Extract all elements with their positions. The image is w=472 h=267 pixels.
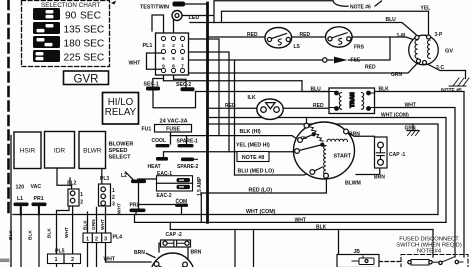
wire left dashed boundary xyxy=(7,0,10,212)
box HSIR xyxy=(14,132,41,169)
wire PL1 pin4 to vertical x229 down to YEL MED HI xyxy=(184,52,229,152)
svg-text:BLWR: BLWR xyxy=(83,147,102,154)
PL3 pin numbers xyxy=(112,188,115,208)
relay GVR xyxy=(64,71,109,85)
dip switch icon 3 xyxy=(33,36,60,48)
svg-text:HSIR: HSIR xyxy=(20,147,36,154)
motor IDM induced draft xyxy=(151,253,195,267)
svg-text:1.5 AMP: 1.5 AMP xyxy=(197,176,203,196)
svg-text:L2: L2 xyxy=(121,173,127,179)
terminal SPARE-1 xyxy=(178,144,194,147)
fuse block EAC xyxy=(157,176,193,191)
wire BLWR to PL3 xyxy=(101,169,103,185)
svg-text:WHT: WHT xyxy=(129,61,142,67)
wire WHT COM upper line right edge down to WHT bottom line xyxy=(208,118,447,223)
svg-text:FU1: FU1 xyxy=(142,127,152,133)
wire PL1 pin5 diagonal to FSE line xyxy=(176,54,323,60)
wire RED LO speed line xyxy=(201,179,326,194)
wire BLU top line xyxy=(190,23,416,35)
scan artifact bottom left xyxy=(0,259,10,263)
wire PR1 down xyxy=(38,206,40,267)
wire RED line ILK to transformer xyxy=(283,107,329,109)
wire PL1 pin2 up to YEL line across top to GV xyxy=(174,1,429,36)
gas valve GV xyxy=(409,35,439,65)
svg-text:BRN: BRN xyxy=(134,250,145,256)
svg-text:3: 3 xyxy=(104,237,107,243)
fuse FU1 box xyxy=(155,125,192,133)
wire blower motor to CAP-1 top BRN xyxy=(348,133,375,137)
wire CAP-1 bottom BRN return xyxy=(356,168,380,175)
svg-text:135 SEC: 135 SEC xyxy=(64,24,105,35)
svg-text:24 VAC-3A: 24 VAC-3A xyxy=(160,119,188,125)
terminal COOL xyxy=(156,144,170,147)
fusible link FSE xyxy=(323,57,348,64)
terminal COM xyxy=(175,204,188,207)
svg-text:2: 2 xyxy=(71,257,74,263)
connector PL2 xyxy=(68,189,79,206)
box IDR xyxy=(45,132,75,169)
terminal SEC-2 xyxy=(181,87,195,91)
svg-text:BLOWER: BLOWER xyxy=(109,141,134,147)
wire left cabinet box left edge xyxy=(10,136,12,267)
svg-text:L1: L1 xyxy=(17,196,23,202)
wire PL4 cell2 down xyxy=(96,243,98,267)
svg-text:NOTE #5: NOTE #5 xyxy=(441,88,462,94)
LED indicator xyxy=(172,11,182,21)
svg-text:WHT: WHT xyxy=(405,103,416,109)
svg-text:BLU: BLU xyxy=(311,86,322,92)
svg-text:JB: JB xyxy=(354,249,361,255)
switch FRS xyxy=(326,27,353,47)
dip switch icon 2 xyxy=(33,22,60,34)
terminal HEAT xyxy=(156,157,168,161)
svg-text:CAP -2: CAP -2 xyxy=(166,232,183,238)
svg-text:NOTE #4: NOTE #4 xyxy=(417,249,442,255)
svg-text:1: 1 xyxy=(86,237,89,243)
wire WHT from transformer right bottom down right edge xyxy=(375,108,456,258)
connector PL5 xyxy=(48,254,81,264)
svg-text:3: 3 xyxy=(112,202,115,208)
wire CAP-2 right down to IDM xyxy=(187,247,189,259)
leader line NOTE #6 left xyxy=(333,1,348,7)
relay HI/LO xyxy=(103,93,139,125)
svg-text:BLK: BLK xyxy=(82,220,88,230)
svg-text:RED: RED xyxy=(247,32,258,38)
svg-text:1: 1 xyxy=(54,257,57,263)
svg-text:PL4: PL4 xyxy=(113,235,123,241)
svg-text:BLK: BLK xyxy=(8,230,14,240)
wire GRN ground stub xyxy=(412,124,414,131)
wire PL2 bottom2 to PL5 cell2 xyxy=(72,206,74,267)
wire L2 to PR2 xyxy=(138,183,140,209)
wire JB to disconnect dashed xyxy=(379,261,403,263)
svg-text:2: 2 xyxy=(95,237,98,243)
svg-text:WHT (COM): WHT (COM) xyxy=(381,113,409,119)
PL5 cell numbers xyxy=(54,257,74,263)
wire RED LO left corner down xyxy=(200,193,202,222)
svg-text:TRAN: TRAN xyxy=(350,92,356,107)
wire BLK bottom corner down xyxy=(253,230,255,267)
wire RED line through LS and FRS to GV 1-M xyxy=(208,37,414,40)
wire RED line through ILK left xyxy=(208,107,258,109)
wire WHT COM bottom line xyxy=(13,214,438,216)
svg-text:1: 1 xyxy=(181,43,184,49)
selection chart dashed box xyxy=(22,1,110,67)
svg-text:ILK: ILK xyxy=(248,95,256,101)
svg-text:RED: RED xyxy=(365,65,376,71)
wire COM terminal down to WHT COM line xyxy=(181,207,183,215)
svg-text:2-C: 2-C xyxy=(436,65,444,71)
svg-text:NOTE #6: NOTE #6 xyxy=(350,4,371,10)
svg-text:GV: GV xyxy=(445,49,453,55)
svg-text:180 SEC: 180 SEC xyxy=(64,38,105,49)
wire PL4 cell1 down xyxy=(87,243,89,267)
svg-text:SPARE-1: SPARE-1 xyxy=(177,138,199,144)
wire GV 2-C to chassis xyxy=(425,63,466,79)
svg-text:YEL: YEL xyxy=(421,6,431,12)
wire SEC-1 elbow xyxy=(153,79,164,87)
svg-text:2: 2 xyxy=(112,195,115,201)
wire CAP-2 left down to IDM xyxy=(159,243,161,252)
connector PL3 xyxy=(99,184,111,206)
svg-text:GRN: GRN xyxy=(405,126,417,132)
wire PL4 cell1 up BLK xyxy=(87,212,89,233)
wire PL2 bottom to PL5 cell1 xyxy=(57,206,70,267)
svg-text:PR1: PR1 xyxy=(34,196,44,202)
svg-text:BLK: BLK xyxy=(47,228,53,238)
svg-text:PL2: PL2 xyxy=(67,181,76,187)
junction box JB xyxy=(337,255,379,267)
PL1 pin numbers 9 8 7 xyxy=(162,64,184,70)
svg-text:FUSE: FUSE xyxy=(166,127,180,133)
wire test/twin jumper to bus xyxy=(185,3,208,5)
jumper TEST/TWIN xyxy=(173,2,186,7)
switch lever L2 xyxy=(126,172,134,180)
wire BLK HI speed line xyxy=(170,136,297,140)
ground symbol GRN xyxy=(407,131,419,136)
svg-text:IDR: IDR xyxy=(54,147,66,154)
svg-text:PL5: PL5 xyxy=(55,249,65,255)
svg-text:3: 3 xyxy=(162,43,165,49)
svg-text:1: 1 xyxy=(80,192,83,198)
svg-text:CAP -1: CAP -1 xyxy=(389,152,406,158)
wire JB feed from BLK line xyxy=(338,230,340,255)
wire IDR to PL2 xyxy=(57,168,72,189)
transformer TRAN xyxy=(329,88,375,114)
svg-text:LS: LS xyxy=(294,44,301,50)
svg-text:BLU: BLU xyxy=(386,17,397,23)
wire PL4 cell3 up WHT xyxy=(105,208,107,234)
svg-text:BLU (MED LO): BLU (MED LO) xyxy=(238,169,275,175)
svg-text:BLWM: BLWM xyxy=(345,181,361,187)
svg-text:90 SEC: 90 SEC xyxy=(65,10,101,21)
connector PL1 xyxy=(156,33,189,75)
PL1 pin numbers 6 5 4 xyxy=(162,56,184,62)
leader line NOTE #6 right xyxy=(375,1,382,6)
wire BRN stub to IDM xyxy=(147,254,156,258)
wire blower motor top stub xyxy=(306,118,308,124)
svg-text:SEC-1: SEC-1 xyxy=(144,81,159,87)
svg-text:BLK: BLK xyxy=(379,86,390,92)
svg-text:BLK: BLK xyxy=(28,230,34,240)
wire SEC-2 right segment to transformer top xyxy=(196,91,330,93)
terminal SEC-1 xyxy=(146,87,160,91)
svg-text:RED (LO): RED (LO) xyxy=(249,188,273,194)
wire PL2 pin1 top xyxy=(69,178,71,186)
dip switch icon 1 xyxy=(33,8,60,20)
wire L1 down xyxy=(20,206,22,267)
wire FSE line right segment and loop vertical xyxy=(349,37,391,60)
svg-text:WHT: WHT xyxy=(117,203,123,214)
svg-text:8: 8 xyxy=(172,64,175,70)
svg-text:6: 6 xyxy=(162,56,165,62)
wire BLK from transformer right top down right edge to disconnect xyxy=(375,92,465,258)
svg-text:SEC-2: SEC-2 xyxy=(176,82,191,88)
connector PL4 xyxy=(83,233,111,243)
wire YEL MED HI speed line xyxy=(164,152,295,157)
svg-text:TEST/TWIN: TEST/TWIN xyxy=(140,5,169,11)
svg-text:2: 2 xyxy=(80,200,83,206)
wire EAC-1 left stub xyxy=(138,178,157,180)
svg-text:OL: OL xyxy=(301,135,308,141)
svg-text:NOTE #8: NOTE #8 xyxy=(242,155,264,161)
svg-text:BRN: BRN xyxy=(191,250,202,256)
svg-text:120: 120 xyxy=(16,185,25,191)
svg-text:5: 5 xyxy=(172,56,175,62)
svg-text:HEAT: HEAT xyxy=(148,164,161,170)
dip switch icon 4 xyxy=(33,50,60,62)
svg-text:RED: RED xyxy=(313,103,324,109)
svg-text:COOL: COOL xyxy=(152,138,166,144)
note5 symbol hatch xyxy=(449,78,469,86)
svg-text:GRN: GRN xyxy=(91,219,97,230)
terminal L2 xyxy=(131,180,146,184)
wire PL4 cell3 down to IDM WHT xyxy=(106,243,152,263)
svg-text:7: 7 xyxy=(181,64,184,70)
svg-text:WHT: WHT xyxy=(295,218,306,224)
svg-text:START: START xyxy=(334,154,352,160)
PL4 cell numbers xyxy=(86,237,107,243)
svg-text:RED: RED xyxy=(225,103,236,109)
svg-text:WHT: WHT xyxy=(100,219,106,230)
terminal PR1 xyxy=(32,203,47,207)
svg-text:RED: RED xyxy=(300,32,311,38)
wire WHT bracket PL1 xyxy=(147,53,162,69)
terminal SPARE-2 xyxy=(181,158,194,162)
capacitor CAP-2 xyxy=(161,240,191,247)
svg-text:225 SEC: 225 SEC xyxy=(64,52,105,63)
wire PL1 pin3 elbow xyxy=(152,15,164,36)
fused disconnect switch dashed box xyxy=(401,255,468,267)
wire thick vertical bus xyxy=(206,3,209,222)
PL1 pin numbers 3 2 1 xyxy=(162,43,184,49)
wire BLU MED LO speed line xyxy=(235,173,311,176)
motor BLWM blower xyxy=(294,122,355,179)
capacitor CAP-1 xyxy=(375,137,388,168)
switch LS xyxy=(265,28,292,48)
svg-text:YEL (MED HI): YEL (MED HI) xyxy=(236,143,270,149)
svg-text:BLK: BLK xyxy=(316,225,327,231)
wire GRN top line to GV 2-C xyxy=(186,63,418,74)
svg-text:SPARE-2: SPARE-2 xyxy=(177,164,199,170)
PL2 pin numbers xyxy=(80,192,83,206)
svg-text:PL3: PL3 xyxy=(100,176,109,182)
svg-text:1: 1 xyxy=(112,188,115,194)
svg-text:PL1: PL1 xyxy=(143,43,153,49)
wire vertical x234.5 FSE to BLU MED LO xyxy=(234,60,236,175)
wire fuse to COOL terminal xyxy=(170,132,172,145)
svg-text:SPEED: SPEED xyxy=(109,148,128,154)
wire WHT bottom line xyxy=(135,215,447,223)
svg-text:BRN: BRN xyxy=(374,175,385,181)
svg-text:BRN: BRN xyxy=(349,131,360,137)
note box NOTE #8 xyxy=(237,152,269,162)
svg-text:9: 9 xyxy=(162,64,165,70)
wire SEC-1 down right up to SEC-2 xyxy=(153,91,196,108)
wire long line to BLU transformer feed xyxy=(164,81,330,92)
interlock ILK xyxy=(257,99,283,119)
wire GRN line right edge down to WHT COM bottom line xyxy=(208,124,439,215)
svg-text:C̄OM: C̄OM xyxy=(176,198,188,205)
svg-text:WHT: WHT xyxy=(104,256,115,262)
svg-text:LED: LED xyxy=(189,15,200,21)
box BLWR xyxy=(79,132,106,169)
wire PL4 cell2 up GRN xyxy=(96,208,98,234)
wire EAC-2 left stub to COM xyxy=(138,204,175,206)
svg-text:BLK (HI): BLK (HI) xyxy=(240,129,261,135)
svg-text:WHT: WHT xyxy=(64,227,70,238)
svg-text:VAC: VAC xyxy=(31,184,42,190)
wire FSE stub xyxy=(327,59,333,61)
svg-text:SELECT: SELECT xyxy=(109,154,132,160)
arrow top pointer xyxy=(111,1,116,5)
svg-text:EAC-1: EAC-1 xyxy=(157,171,172,177)
svg-text:EAC-2: EAC-2 xyxy=(157,193,172,199)
svg-text:RELAY: RELAY xyxy=(105,107,137,118)
wire BLK bottom line and corner xyxy=(170,222,433,257)
svg-text:2: 2 xyxy=(172,43,175,49)
svg-text:1-M: 1-M xyxy=(397,33,406,39)
terminal L1 xyxy=(14,203,29,207)
svg-text:SELECTION CHART: SELECTION CHART xyxy=(41,2,101,9)
svg-text:WHT (COM): WHT (COM) xyxy=(246,209,276,215)
svg-text:4: 4 xyxy=(181,56,184,62)
wire PL1 pin1 to vertical x219 down to BLK HI xyxy=(184,39,219,136)
wire PL1 pin8 down to SEC-2 xyxy=(174,73,187,87)
svg-text:FSE: FSE xyxy=(351,58,361,64)
svg-text:FRS: FRS xyxy=(354,45,365,51)
svg-text:PR2: PR2 xyxy=(130,203,140,209)
wire PL1 pin9 down xyxy=(163,73,165,81)
svg-text:GVR: GVR xyxy=(74,73,99,85)
wire PR2 down to WHT COM line xyxy=(135,212,137,215)
terminal PR2 xyxy=(130,209,146,213)
svg-text:3-P: 3-P xyxy=(435,32,443,38)
svg-text:GRN: GRN xyxy=(391,72,403,78)
